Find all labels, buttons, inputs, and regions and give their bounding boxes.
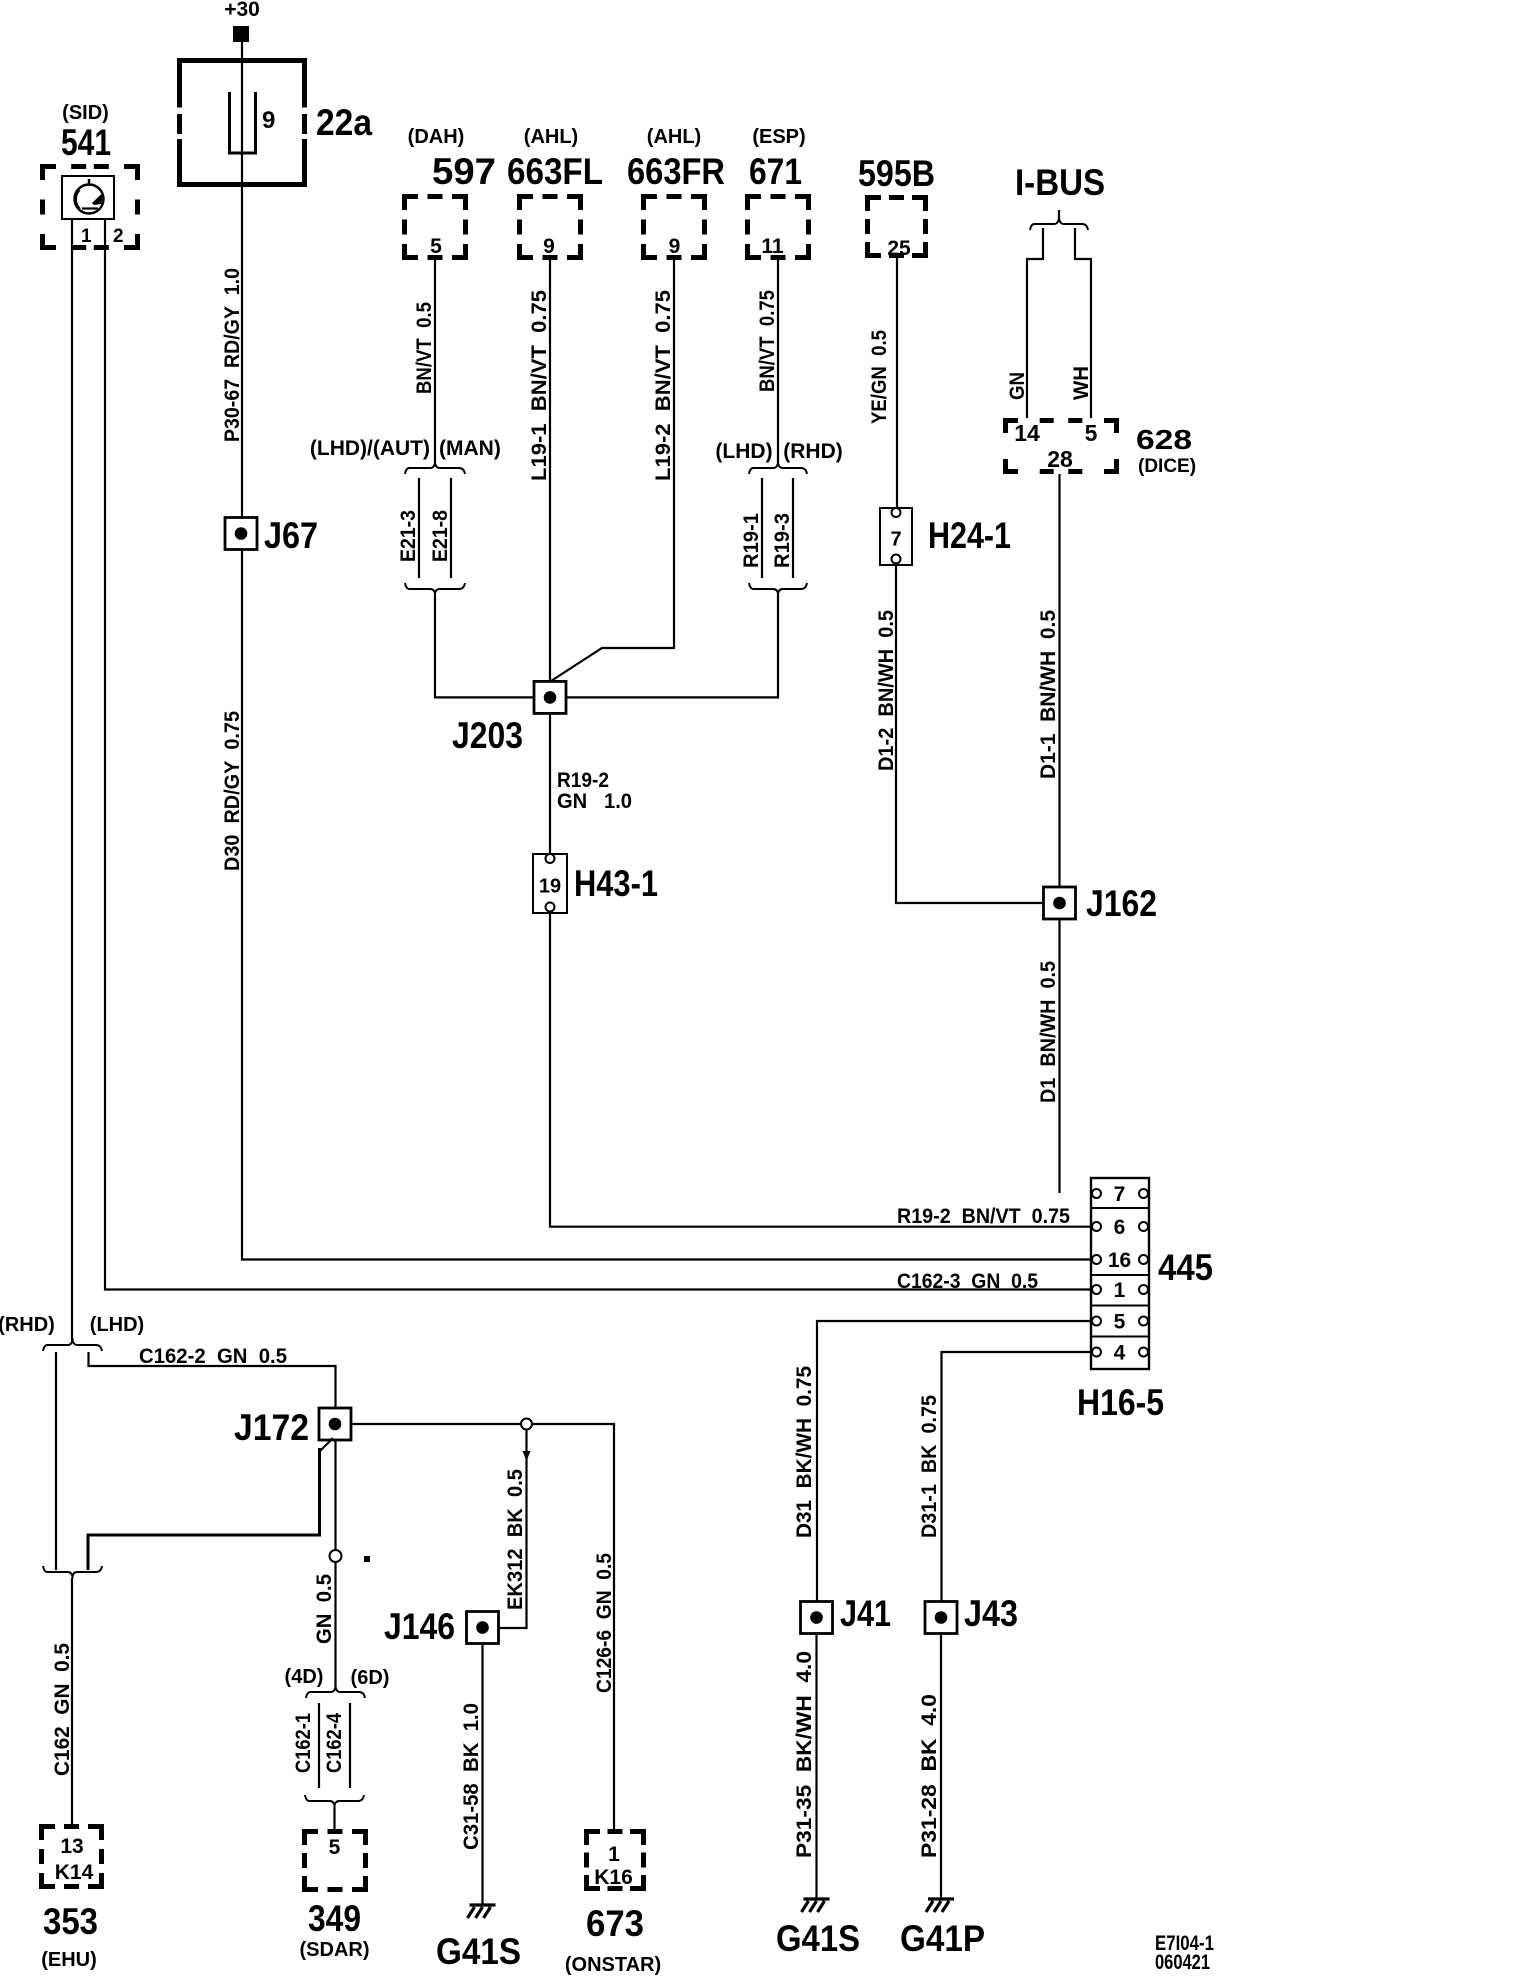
svg-text:541: 541 (61, 122, 111, 163)
svg-text:445: 445 (1158, 1247, 1213, 1288)
wire: R19 merged branch into junction J203 (566, 595, 778, 697)
wire: 663FR pin 9 down and diagonally into junction J203, label L19-2 BN/VT 0.75 (551, 260, 674, 681)
junction J146 (467, 1612, 499, 1644)
wire: H24-1 down then right into junction J162, label D1-2 BN/WH 0.5 (896, 565, 1044, 903)
ground G41S (under J41) (802, 1899, 830, 1912)
svg-text:C162-1: C162-1 (292, 1713, 315, 1773)
svg-text:R19-3: R19-3 (771, 513, 794, 568)
svg-text:(4D): (4D) (285, 1666, 324, 1688)
ESP unit 671 dashed box (745, 194, 811, 260)
ground G41S (under J146) (468, 1905, 496, 1918)
svg-text:GN: GN (1006, 372, 1029, 400)
svg-text:P31-35 BK/WH 4.0: P31-35 BK/WH 4.0 (793, 1651, 816, 1858)
svg-text:E21-3: E21-3 (397, 510, 420, 562)
svg-text:EK312 BK 0.5: EK312 BK 0.5 (504, 1469, 527, 1610)
R19 option upper brace (749, 461, 807, 474)
wire: LHD branch right to junction J172, label C162-2 GN 0.5 (89, 1352, 336, 1408)
svg-text:2: 2 (113, 226, 124, 247)
wire: DICE 628 pin 28 down to junction J162, label D1-1 BN/WH 0.5 (1058, 474, 1060, 887)
wire: C162-4 option branch (349, 1703, 351, 1788)
J172 splice diagonal (320, 1438, 333, 1451)
SDAR unit 349 dashed box (pin 5) (302, 1829, 368, 1892)
svg-text:28: 28 (1047, 446, 1073, 472)
svg-text:1: 1 (1114, 1279, 1126, 1302)
junction J203 (534, 681, 566, 713)
wire: J67 down then right to connector 445 pin 16 (242, 550, 1092, 1260)
wire: 445 pin 4 down to junction J43, label D31-1 BK 0.75 (942, 1352, 1093, 1601)
svg-text:+30: +30 (224, 0, 260, 21)
wire: LHD return line back to merge brace (88, 1448, 320, 1570)
wire: J146 down to ground G41S, label C31-58 BK 1.0 (481, 1644, 483, 1905)
svg-text:671: 671 (749, 151, 802, 192)
svg-text:G41S: G41S (436, 1931, 521, 1972)
RHD/LHD option lower brace (43, 1566, 102, 1578)
+30 power feed square terminal (233, 26, 249, 42)
wire: merged C162 line down to K14, label C162 GN 0.5 (71, 1578, 73, 1824)
wire: 541 pin 2 down then right to connector 445 pin 1 (105, 219, 1092, 1290)
svg-text:R19-2 BN/VT 0.75: R19-2 BN/VT 0.75 (897, 1205, 1070, 1228)
svg-text:(ESP): (ESP) (752, 126, 805, 148)
svg-text:6: 6 (1114, 1216, 1126, 1239)
4D/6D option lower brace (305, 1795, 364, 1807)
DICE unit 628 dashed box (1003, 418, 1119, 474)
I-BUS stub tick (1058, 210, 1060, 219)
svg-text:(RHD): (RHD) (0, 1314, 55, 1336)
445 pin 16 (1092, 1255, 1101, 1264)
svg-text:673: 673 (586, 1903, 644, 1944)
svg-text:353: 353 (43, 1901, 98, 1942)
svg-text:I-BUS: I-BUS (1015, 162, 1105, 203)
svg-text:(LHD): (LHD) (715, 440, 772, 463)
R19 option lower brace (749, 583, 807, 595)
DAH unit 597 dashed box (402, 194, 468, 260)
ground G41P (under J43) (926, 1899, 954, 1912)
svg-text:663FL: 663FL (507, 151, 603, 192)
svg-text:(DAH): (DAH) (408, 126, 465, 148)
I-BUS distribution brace (1030, 216, 1088, 230)
svg-text:19: 19 (539, 876, 561, 898)
arrowhead on EK312 branch (523, 1451, 531, 1461)
svg-text:C162-4: C162-4 (323, 1713, 346, 1773)
svg-text:(SDAR): (SDAR) (300, 1939, 370, 1961)
svg-text:5: 5 (1085, 420, 1098, 446)
svg-text:(AHL): (AHL) (524, 126, 578, 148)
svg-text:J172: J172 (234, 1407, 309, 1448)
wire: J203 down to connector H43-1, label R19-2 GN 1.0 (549, 713, 551, 855)
svg-text:(EHU): (EHU) (41, 1949, 97, 1971)
svg-text:9: 9 (543, 235, 555, 258)
svg-text:J43: J43 (964, 1593, 1018, 1634)
svg-text:P30-67 RD/GY 1.0: P30-67 RD/GY 1.0 (221, 268, 244, 442)
wire: I-BUS WH line down to DICE 628 pin 5 (1075, 228, 1091, 418)
445 pin 5 (1092, 1317, 1101, 1326)
svg-text:(AHL): (AHL) (647, 126, 701, 148)
svg-text:13: 13 (60, 1835, 83, 1858)
svg-text:C162-3 GN 0.5: C162-3 GN 0.5 (897, 1270, 1038, 1293)
svg-text:C162 GN 0.5: C162 GN 0.5 (51, 1643, 74, 1776)
svg-text:J162: J162 (1086, 883, 1157, 924)
junction J67 (225, 518, 257, 550)
E21 option upper brace (405, 461, 465, 474)
svg-text:H43-1: H43-1 (574, 863, 658, 904)
wire: I-BUS GN line down to DICE 628 pin 14 (1027, 228, 1043, 418)
svg-text:4: 4 (1114, 1342, 1126, 1365)
svg-text:YE/GN 0.5: YE/GN 0.5 (868, 330, 891, 424)
wire: branch from circle down to junction J146, label EK312 BK 0.5 (499, 1430, 527, 1629)
445 pin 6 (1092, 1222, 1101, 1231)
ONSTAR K16 dashed box (pin 1) (584, 1829, 646, 1891)
svg-text:(DICE): (DICE) (1138, 456, 1196, 477)
AHL unit 663FR dashed box (641, 194, 707, 260)
SID unit inner component box with clock icon (62, 176, 114, 219)
svg-text:16: 16 (1108, 1249, 1131, 1272)
svg-text:H16-5: H16-5 (1077, 1382, 1164, 1423)
wire: 663FL pin 9 down into junction J203, label L19-1 BN/VT 0.75 (549, 260, 551, 681)
svg-text:E21-8: E21-8 (429, 510, 452, 562)
svg-text:BN/VT 0.75: BN/VT 0.75 (756, 290, 779, 392)
svg-text:C31-58 BK 1.0: C31-58 BK 1.0 (460, 1703, 483, 1850)
fuse element symbol inside 22a (230, 92, 256, 153)
wire: J162 down toward connector 445 pin 7, label D1 BN/WH 0.5 (1058, 919, 1060, 1193)
wire: E21 merged branch into junction J203 (435, 595, 534, 697)
connector 445 / H16-5 body (1091, 1178, 1149, 1369)
inline connector circle on J172 output (521, 1419, 532, 1430)
E21 option lower brace (405, 583, 465, 595)
svg-text:(ONSTAR): (ONSTAR) (565, 1954, 661, 1976)
svg-text:(SID): (SID) (62, 102, 109, 124)
svg-text:349: 349 (308, 1898, 361, 1939)
wire: C162-1 option branch (318, 1703, 320, 1788)
wire: 597 pin 5 down to E21 option brace, label BN/VT 0.5 (434, 260, 436, 462)
junction J162 (1044, 887, 1076, 919)
AHL unit 663FL dashed box (517, 194, 583, 260)
wire: RHD branch straight down (55, 1352, 57, 1570)
junction J43 (925, 1602, 957, 1634)
svg-text:G41P: G41P (900, 1918, 985, 1959)
svg-text:C162-2 GN 0.5: C162-2 GN 0.5 (139, 1345, 287, 1368)
svg-text:L19-1 BN/VT 0.75: L19-1 BN/VT 0.75 (528, 290, 551, 481)
svg-text:14: 14 (1014, 420, 1040, 446)
svg-text:R19-1: R19-1 (740, 513, 763, 568)
svg-text:D1-1 BN/WH 0.5: D1-1 BN/WH 0.5 (1037, 610, 1060, 779)
stray dot mark (364, 1556, 370, 1562)
svg-text:628: 628 (1136, 424, 1192, 455)
svg-text:(6D): (6D) (351, 1667, 390, 1689)
svg-text:5: 5 (430, 235, 442, 258)
445 pin 1 (1092, 1285, 1101, 1294)
svg-text:9: 9 (669, 235, 681, 258)
445 pin 4 (1092, 1348, 1101, 1357)
svg-text:R19-2: R19-2 (557, 769, 609, 792)
svg-text:H24-1: H24-1 (928, 515, 1011, 556)
wire: E21-8 option branch (450, 478, 452, 578)
svg-text:597: 597 (432, 151, 496, 192)
wire: R19-1 option branch (761, 478, 763, 578)
svg-text:D30 RD/GY 0.75: D30 RD/GY 0.75 (221, 711, 244, 871)
junction J172 (319, 1408, 351, 1440)
svg-text:K16: K16 (594, 1866, 633, 1889)
SID unit 541 dashed box (40, 164, 140, 250)
svg-text:D31-1 BK 0.75: D31-1 BK 0.75 (918, 1395, 941, 1538)
svg-text:GN 1.0: GN 1.0 (557, 790, 632, 813)
svg-text:D1-2 BN/WH 0.5: D1-2 BN/WH 0.5 (875, 610, 898, 771)
svg-text:G41S: G41S (776, 1918, 860, 1959)
svg-text:J67: J67 (264, 515, 318, 556)
svg-text:(LHD)/(AUT): (LHD)/(AUT) (310, 437, 430, 460)
wire: R19-3 option branch (792, 478, 794, 578)
wire: J43 down to ground G41P, label P31-28 BK 4.0 (940, 1634, 942, 1899)
svg-text:(LHD): (LHD) (90, 1314, 144, 1336)
svg-text:1: 1 (81, 226, 92, 247)
svg-text:(MAN): (MAN) (439, 437, 501, 460)
svg-text:P31-28 BK 4.0: P31-28 BK 4.0 (918, 1694, 941, 1858)
wire: J172 down to 4D/6D option brace, label GN 0.5 (334, 1440, 336, 1688)
junction J41 (801, 1602, 833, 1634)
svg-text:J203: J203 (452, 715, 523, 756)
wire: J172 output right then down to K16 (ONSTAR), label C126-6 GN 0.5 (351, 1424, 614, 1829)
445 pin 7 (1092, 1189, 1101, 1198)
svg-text:WH: WH (1070, 366, 1093, 400)
svg-text:D31 BK/WH 0.75: D31 BK/WH 0.75 (793, 1366, 816, 1538)
svg-text:5: 5 (329, 1836, 341, 1859)
wire: +30 feed down through fuse 22a to junction J67 (241, 42, 243, 517)
svg-text:060421: 060421 (1155, 1951, 1210, 1974)
svg-text:22a: 22a (316, 102, 372, 143)
svg-text:11: 11 (761, 235, 784, 258)
unit 595B dashed box (865, 195, 928, 258)
wire: H43-1 down then right to connector 445 pin 6 (550, 913, 1092, 1227)
svg-text:7: 7 (1114, 1183, 1126, 1206)
connector H24-1 pin 7 (880, 508, 912, 565)
wire: J41 down to ground G41S, label P31-35 BK/WH 4.0 (815, 1634, 817, 1899)
svg-text:D1 BN/WH 0.5: D1 BN/WH 0.5 (1037, 961, 1060, 1103)
svg-text:5: 5 (1114, 1311, 1126, 1334)
wire: 595B pin 25 down to connector H24-1, label YE/GN 0.5 (896, 258, 898, 508)
svg-text:J146: J146 (384, 1606, 455, 1647)
wire: 671 pin 11 down to R19 option brace, label BN/VT 0.75 (777, 260, 779, 462)
4D/6D option upper brace (306, 1685, 365, 1698)
svg-text:K14: K14 (55, 1861, 94, 1884)
connector H43-1 pin 19 (533, 854, 567, 913)
svg-text:7: 7 (890, 529, 901, 551)
wire: merged branch into SDAR 349 (333, 1807, 335, 1829)
K14 dashed box (pin 13) (39, 1824, 104, 1889)
wire: 541 pin 1 down to RHD/LHD option brace (71, 219, 73, 1341)
svg-text:L19-2 BN/VT 0.75: L19-2 BN/VT 0.75 (652, 290, 675, 481)
inline connector circle on GN wire (330, 1550, 342, 1562)
svg-text:595B: 595B (858, 153, 935, 194)
svg-text:C126-6 GN 0.5: C126-6 GN 0.5 (593, 1553, 616, 1693)
svg-text:(RHD): (RHD) (783, 440, 842, 463)
svg-text:25: 25 (887, 237, 911, 260)
wire: E21-3 option branch (418, 478, 420, 578)
svg-text:BN/VT 0.5: BN/VT 0.5 (413, 302, 436, 394)
wire: 445 pin 5 down to junction J41, label D31 BK/WH 0.75 (817, 1321, 1092, 1601)
fuse box 22a border (177, 61, 307, 185)
svg-text:GN 0.5: GN 0.5 (313, 1574, 336, 1644)
svg-text:J41: J41 (840, 1593, 891, 1634)
svg-text:9: 9 (262, 107, 275, 134)
RHD/LHD option upper brace (43, 1338, 102, 1351)
svg-text:663FR: 663FR (627, 151, 725, 192)
svg-text:1: 1 (608, 1843, 620, 1866)
